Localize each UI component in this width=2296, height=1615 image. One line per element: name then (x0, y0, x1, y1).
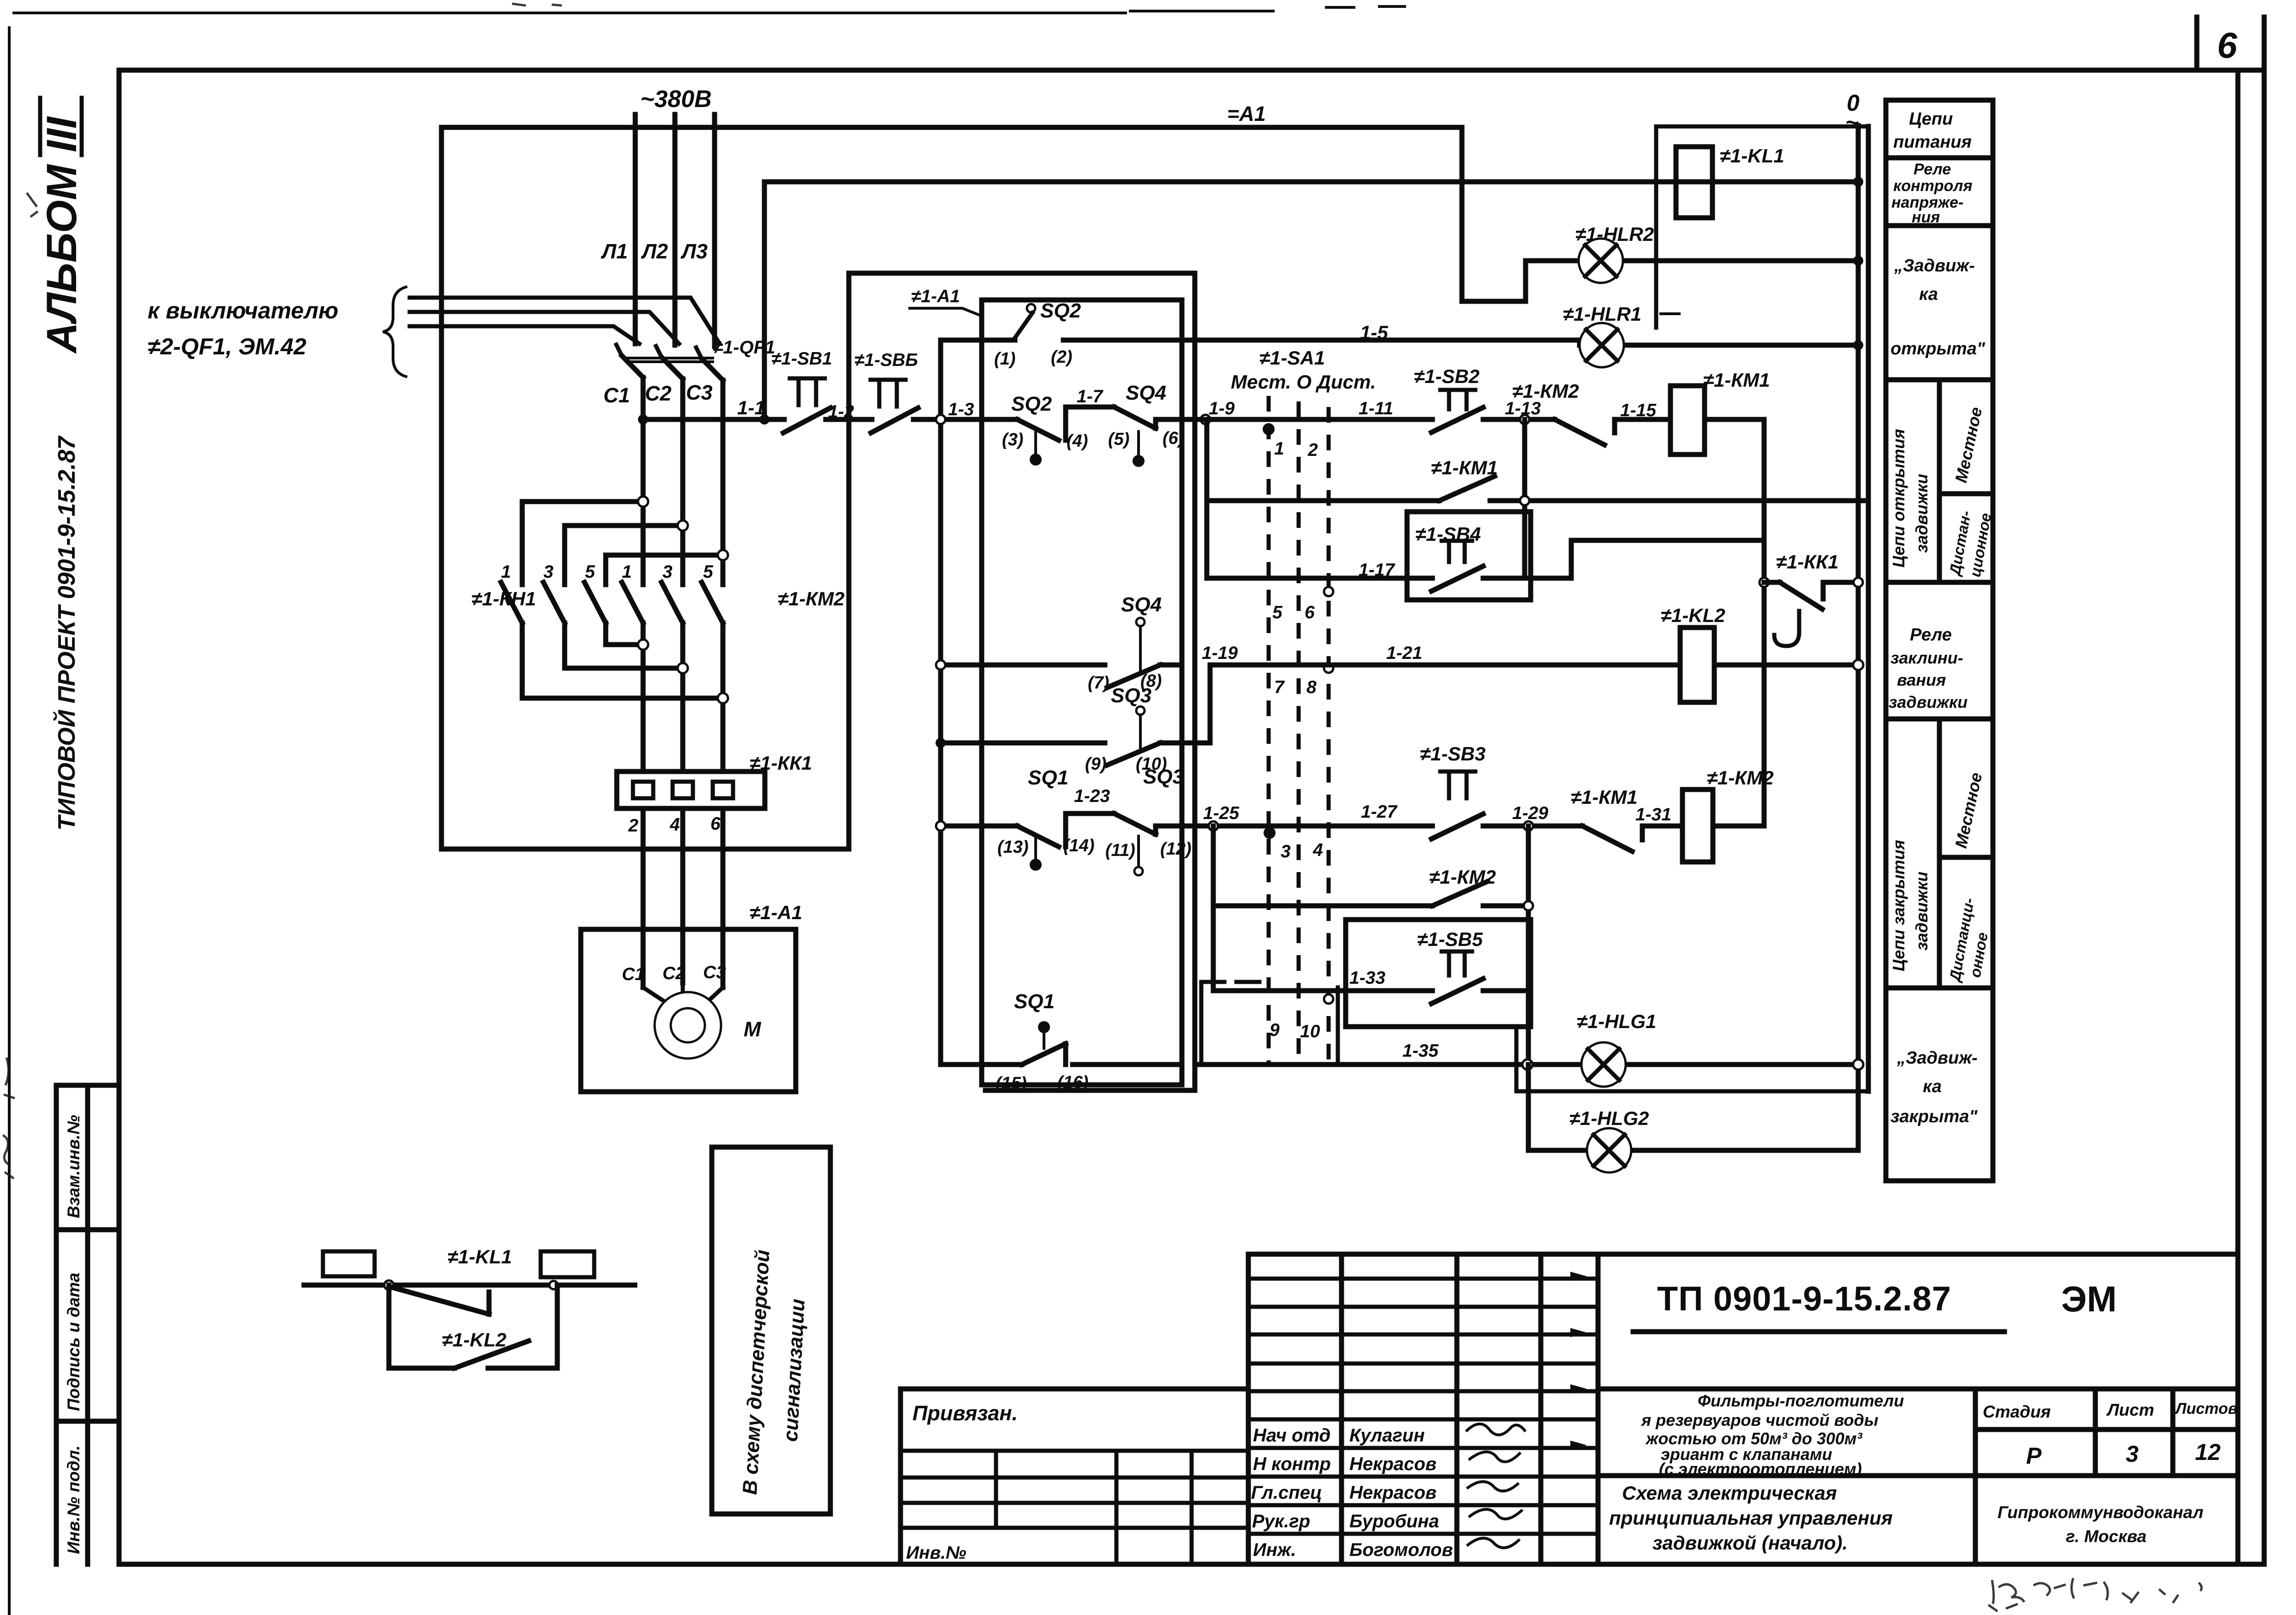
pushbutton SB4 in box (1407, 512, 1531, 600)
svg-text:1-23: 1-23 (1074, 786, 1110, 806)
row2: contact KM1 aux (1207, 498, 1868, 503)
svg-text:1-19: 1-19 (1202, 643, 1238, 663)
svg-text:1-7: 1-7 (1077, 387, 1104, 407)
row1: wire 1-1 to 1-3 (643, 417, 1006, 422)
svg-text:(3): (3) (1002, 430, 1023, 449)
SA1_COLUMNS (1201, 347, 1376, 1066)
svg-text:открыта": открыта" (1890, 339, 1986, 359)
svg-text:SQ2: SQ2 (1040, 299, 1081, 322)
svg-text:Реле: Реле (1914, 161, 1951, 178)
row3: wire 1-17 (1207, 540, 1764, 578)
svg-text:я резервуаров чистой воды: я резервуаров чистой воды (1640, 1411, 1879, 1430)
svg-text:(7): (7) (1088, 673, 1109, 693)
svg-text:Реле: Реле (1910, 625, 1952, 645)
svg-text:питания: питания (1893, 132, 1972, 152)
MARGIN_TEXT (38, 98, 119, 1564)
svg-text:SQ4: SQ4 (1126, 382, 1166, 404)
svg-text:Р: Р (2026, 1443, 2042, 1469)
svg-text:1: 1 (1274, 439, 1284, 459)
SA1 enclosure bottom (1201, 982, 1338, 1065)
svg-text:3: 3 (543, 562, 554, 582)
svg-text:2: 2 (1307, 440, 1318, 460)
svg-text:≠1-SB1: ≠1-SB1 (771, 349, 832, 369)
svg-text:задвижки: задвижки (1912, 474, 1931, 553)
SA1 dashed column 3 (1327, 407, 1331, 1066)
svg-text:1: 1 (622, 562, 632, 582)
svg-text:М: М (744, 1017, 762, 1041)
wire A1 drop to lamps (1462, 127, 1526, 301)
svg-text:5: 5 (1272, 603, 1283, 622)
svg-text:ка: ка (1919, 285, 1938, 304)
svg-text:(13): (13) (997, 837, 1029, 857)
svg-text:АЛЬБОМ: АЛЬБОМ (38, 164, 85, 354)
svg-text:1-27: 1-27 (1361, 802, 1398, 822)
svg-text:Цепи: Цепи (1909, 109, 1953, 129)
svg-text:1-17: 1-17 (1359, 560, 1395, 580)
svg-text:Листов: Листов (2174, 1400, 2237, 1418)
POWER_SECTION (148, 86, 1462, 1092)
svg-text:≠1-SBБ: ≠1-SBБ (854, 350, 918, 370)
svg-text:≠1-KL2: ≠1-KL2 (442, 1329, 507, 1351)
svg-text:С1: С1 (622, 964, 645, 984)
svg-text:Гл.спец: Гл.спец (1251, 1483, 1322, 1503)
svg-text:4: 4 (669, 815, 680, 835)
CONTROL_TOP (638, 90, 1868, 1150)
function boxes column (1886, 100, 1993, 1181)
motor M (655, 992, 721, 1059)
wire vertical junction 1-13 down (1522, 419, 1527, 578)
svg-text:8: 8 (1306, 677, 1317, 697)
svg-text:1-15: 1-15 (1620, 401, 1657, 420)
svg-text:Л1: Л1 (601, 239, 628, 263)
svg-text:Инж.: Инж. (1253, 1540, 1296, 1560)
svg-text:Стадия: Стадия (1983, 1402, 2051, 1421)
svg-text:1-11: 1-11 (1359, 399, 1393, 419)
terminal block right (541, 1251, 594, 1277)
svg-text:(9): (9) (1085, 754, 1106, 774)
wire A1 top rail (441, 125, 1462, 130)
wire C3 (721, 380, 726, 772)
wire L2 (673, 114, 678, 345)
wire drop to row2 (1205, 419, 1210, 578)
svg-text:1-2: 1-2 (828, 402, 854, 422)
ROWS_MIDDLE (1202, 365, 1868, 1065)
left page border (8, 28, 11, 1614)
svg-text:≠1-HLG1: ≠1-HLG1 (1577, 1011, 1656, 1032)
cable wires to breaker (410, 298, 720, 344)
svg-text:≠1-SA1: ≠1-SA1 (1259, 347, 1325, 369)
svg-text:3: 3 (2126, 1441, 2139, 1467)
svg-text:5: 5 (585, 562, 596, 582)
svg-text:Мест. О Дист.: Мест. О Дист. (1231, 371, 1376, 393)
svg-text:SQ1: SQ1 (1014, 990, 1055, 1013)
svg-text:≠1-КМ1: ≠1-КМ1 (1571, 786, 1638, 808)
inner right border (2236, 70, 2241, 1564)
svg-text:1-29: 1-29 (1512, 803, 1548, 823)
row9 continue: wire 1-35 (1195, 1062, 1858, 1067)
svg-text:(14): (14) (1063, 836, 1095, 855)
wire junction down (1526, 826, 1531, 1065)
svg-text:Цепи закрытия: Цепи закрытия (1889, 840, 1908, 971)
wire coil bus vertical (1762, 419, 1767, 826)
row10: lamp HLG2 branch (1528, 1065, 1858, 1150)
arrows on rows (1570, 1272, 1587, 1450)
svg-text:≠1-А1: ≠1-А1 (911, 287, 960, 306)
KL1 enclosure top (1656, 126, 1868, 328)
svg-text:~380В: ~380В (640, 86, 712, 113)
svg-text:Инв.№ подл.: Инв.№ подл. (64, 1445, 83, 1554)
row8: wire 1-33 with SB5 (1213, 988, 1531, 993)
top page scribble line (14, 6, 1405, 13)
svg-text:Кулагин: Кулагин (1349, 1425, 1425, 1446)
svg-text:1-35: 1-35 (1402, 1041, 1439, 1061)
svg-text:(11): (11) (1105, 841, 1135, 860)
svg-text:≠1-KL1: ≠1-KL1 (1720, 145, 1784, 167)
terminal block left (323, 1251, 375, 1276)
row1 right: wire 1-9 to KM1 coil (1269, 419, 1764, 433)
title block dividers (1598, 1389, 2238, 1564)
svg-text:≠1-КМ2: ≠1-КМ2 (1512, 380, 1579, 402)
enclosure bottom right step (1516, 1027, 1868, 1091)
svg-text:контроля: контроля (1893, 177, 1972, 195)
svg-text:SQ4: SQ4 (1121, 593, 1162, 616)
svg-text:≠1-КМ2: ≠1-КМ2 (1707, 767, 1774, 789)
wire KL1 rail (764, 179, 1858, 185)
TITLE_BLOCK (901, 1254, 2238, 1564)
svg-text:≠1-КМ1: ≠1-КМ1 (1431, 457, 1498, 479)
svg-text:к выключателю: к выключателю (148, 298, 338, 323)
svg-text:3: 3 (1281, 842, 1291, 861)
svg-text:1-9: 1-9 (1209, 399, 1235, 419)
svg-text:SQ3: SQ3 (1143, 766, 1184, 788)
svg-text:≠1-KL2: ≠1-KL2 (1661, 604, 1725, 626)
sheet number cell 6 (2195, 17, 2200, 70)
RIGHT_COLUMN (1886, 100, 1994, 1181)
row6: wire 1-25 1-27 (1211, 826, 1764, 840)
SA1 pin labels row6 (1264, 827, 1276, 839)
svg-text:Богомолов: Богомолов (1349, 1540, 1453, 1560)
svg-text:≠1-А1: ≠1-А1 (750, 902, 802, 923)
signature scribbles (1467, 1424, 1525, 1548)
svg-text:3: 3 (662, 562, 673, 582)
svg-text:Подпись и дата: Подпись и дата (64, 1273, 83, 1411)
svg-text:(2): (2) (1051, 347, 1072, 367)
svg-text:заклини-: заклини- (1890, 648, 1963, 667)
svg-text:задвижки: задвижки (1912, 872, 1931, 951)
svg-text:принципиальная управления: принципиальная управления (1609, 1507, 1893, 1529)
svg-text:1: 1 (501, 562, 511, 582)
wires to motor (643, 808, 723, 987)
svg-text:4: 4 (1312, 840, 1323, 860)
MINI_CIRCUIT (304, 1147, 830, 1514)
svg-text:(4): (4) (1067, 431, 1088, 451)
svg-text:6: 6 (2217, 25, 2237, 66)
pushbutton SB5 box (1346, 920, 1531, 1027)
svg-text:9: 9 (1270, 1020, 1280, 1040)
svg-text:(1): (1) (994, 349, 1015, 369)
svg-text:SQ2: SQ2 (1011, 393, 1052, 415)
wire C1 (641, 377, 646, 772)
svg-text:≠1-КМ2: ≠1-КМ2 (778, 588, 845, 610)
svg-text:6: 6 (1305, 603, 1315, 622)
svg-text:10: 10 (1300, 1022, 1320, 1041)
svg-text:2: 2 (628, 816, 638, 836)
wire A1 feed down (762, 182, 767, 419)
svg-text:ТИПОВОЙ ПРОЕКТ 0901-9-15.2.87: ТИПОВОЙ ПРОЕКТ 0901-9-15.2.87 (53, 436, 80, 831)
SA1 dashed column 2 (1297, 401, 1301, 1066)
wire C2 (680, 379, 686, 772)
svg-text:Некрасов: Некрасов (1349, 1454, 1437, 1474)
svg-text:SQ1: SQ1 (1028, 766, 1068, 789)
svg-text:≠1-SB5: ≠1-SB5 (1417, 928, 1483, 950)
SA1 pin labels row1 (1263, 423, 1275, 435)
svg-text:7: 7 (1274, 677, 1285, 697)
svg-text:С2: С2 (662, 963, 686, 983)
svg-text:1-31: 1-31 (1635, 805, 1671, 825)
binding strip (901, 1389, 1248, 1564)
svg-text:1-33: 1-33 (1349, 968, 1385, 988)
svg-text:(12): (12) (1160, 839, 1192, 859)
brace (383, 287, 406, 377)
svg-text:закрыта": закрыта" (1890, 1107, 1978, 1126)
row7: contact KM2 aux (1213, 903, 1528, 909)
wire left bus corner into row9 (941, 1062, 944, 1067)
power cabinet box (441, 127, 1195, 849)
stamp column boxes (56, 1085, 119, 1564)
svg-text:задвижки: задвижки (1889, 693, 1968, 712)
svg-text:ка: ка (1923, 1077, 1942, 1096)
svg-text:1-25: 1-25 (1203, 803, 1240, 823)
svg-text:≠1-HLR2: ≠1-HLR2 (1575, 223, 1654, 245)
wire 0 bus vertical (1856, 126, 1861, 1150)
svg-text:≠1-КМ1: ≠1-КМ1 (1703, 369, 1770, 391)
row4: wire 1-21 to KL2 (1211, 663, 1858, 668)
dispatcher note box (712, 1147, 830, 1514)
svg-text:С2: С2 (645, 382, 672, 405)
title block outer (1598, 1254, 2238, 1564)
svg-text:Буробина: Буробина (1349, 1511, 1439, 1531)
svg-text:Привязан.: Привязан. (912, 1401, 1018, 1425)
wire L1 (633, 114, 638, 344)
svg-text:ния: ния (1912, 209, 1940, 226)
svg-text:ТП 0901-9-15.2.87: ТП 0901-9-15.2.87 (1657, 1280, 1951, 1318)
svg-text:Нач отд: Нач отд (1253, 1425, 1330, 1446)
svg-text:Л2: Л2 (641, 239, 668, 263)
svg-text:С1: С1 (603, 383, 630, 407)
svg-text:≠1-SB2: ≠1-SB2 (1414, 365, 1479, 387)
svg-text:(с электроотоплением): (с электроотоплением) (1659, 1459, 1862, 1478)
svg-text:(16): (16) (1057, 1073, 1089, 1092)
limit switch unit box (982, 273, 1195, 1090)
svg-text:1-1: 1-1 (737, 397, 765, 419)
dispatcher signal wire (304, 1283, 635, 1288)
svg-text:≠1-HLG2: ≠1-HLG2 (1569, 1107, 1649, 1129)
contact KL2 loop (389, 1285, 557, 1368)
svg-text:≠1-КК1: ≠1-КК1 (1776, 551, 1838, 573)
svg-text:Цепи открытия: Цепи открытия (1889, 429, 1908, 568)
svg-text:1-3: 1-3 (948, 400, 974, 419)
svg-text:≠1-KL1: ≠1-KL1 (447, 1246, 512, 1268)
svg-text:С3: С3 (703, 963, 726, 982)
svg-text:„Задвиж-: „Задвиж- (1894, 256, 1975, 275)
svg-text:Лист: Лист (2106, 1400, 2154, 1419)
ROWS_BOTTOM (1195, 920, 1868, 1172)
svg-text:Взам.инв.№: Взам.инв.№ (64, 1115, 83, 1218)
svg-text:Л3: Л3 (680, 239, 708, 263)
signature table (1248, 1254, 1598, 1564)
wire SB feed down (938, 340, 943, 1065)
svg-text:г. Москва: г. Москва (2066, 1527, 2147, 1546)
relay coil KL1 (1676, 147, 1712, 218)
svg-text:Фильтры-поглотители: Фильтры-поглотители (1698, 1391, 1904, 1410)
svg-text:≠2-QF1, ЭМ.42: ≠2-QF1, ЭМ.42 (148, 334, 306, 359)
SA1 dashed column 1 (1267, 396, 1271, 1066)
svg-text:≠1-HLR1: ≠1-HLR1 (1563, 303, 1641, 325)
svg-text:SQ3: SQ3 (1111, 684, 1151, 707)
svg-text:Гипрокоммунводоканал: Гипрокоммунводоканал (1998, 1503, 2203, 1522)
svg-text:(5): (5) (1108, 430, 1129, 449)
wire secondary right bus (1866, 126, 1871, 1091)
svg-text:≠1-SB3: ≠1-SB3 (1420, 743, 1485, 765)
svg-text:1-21: 1-21 (1386, 643, 1422, 663)
svg-text:(15): (15) (996, 1074, 1027, 1093)
svg-text:вания: вания (1897, 670, 1946, 689)
svg-text:III: III (38, 116, 85, 152)
svg-text:12: 12 (2195, 1439, 2221, 1465)
svg-text:Некрасов: Некрасов (1349, 1483, 1437, 1503)
svg-text:=А1: =А1 (1227, 102, 1266, 126)
svg-text:„Задвиж-: „Задвиж- (1896, 1048, 1978, 1068)
wire L3 (712, 114, 717, 347)
SQ_BOX (910, 273, 1269, 1093)
svg-text:Рук.гр: Рук.гр (1252, 1511, 1310, 1531)
svg-text:задвижкой (начало).: задвижкой (начало). (1652, 1532, 1848, 1554)
svg-text:ЭМ: ЭМ (2061, 1279, 2117, 1319)
contact KL1 changeover (392, 1287, 489, 1314)
svg-text:5: 5 (703, 562, 714, 582)
svg-text:(6): (6) (1163, 429, 1184, 448)
svg-text:Инв.№: Инв.№ (906, 1543, 966, 1563)
svg-text:6: 6 (710, 814, 721, 834)
svg-text:Схема электрическая: Схема электрическая (1622, 1482, 1837, 1504)
svg-text:Н контр: Н контр (1253, 1454, 1331, 1474)
svg-text:С3: С3 (686, 381, 713, 404)
